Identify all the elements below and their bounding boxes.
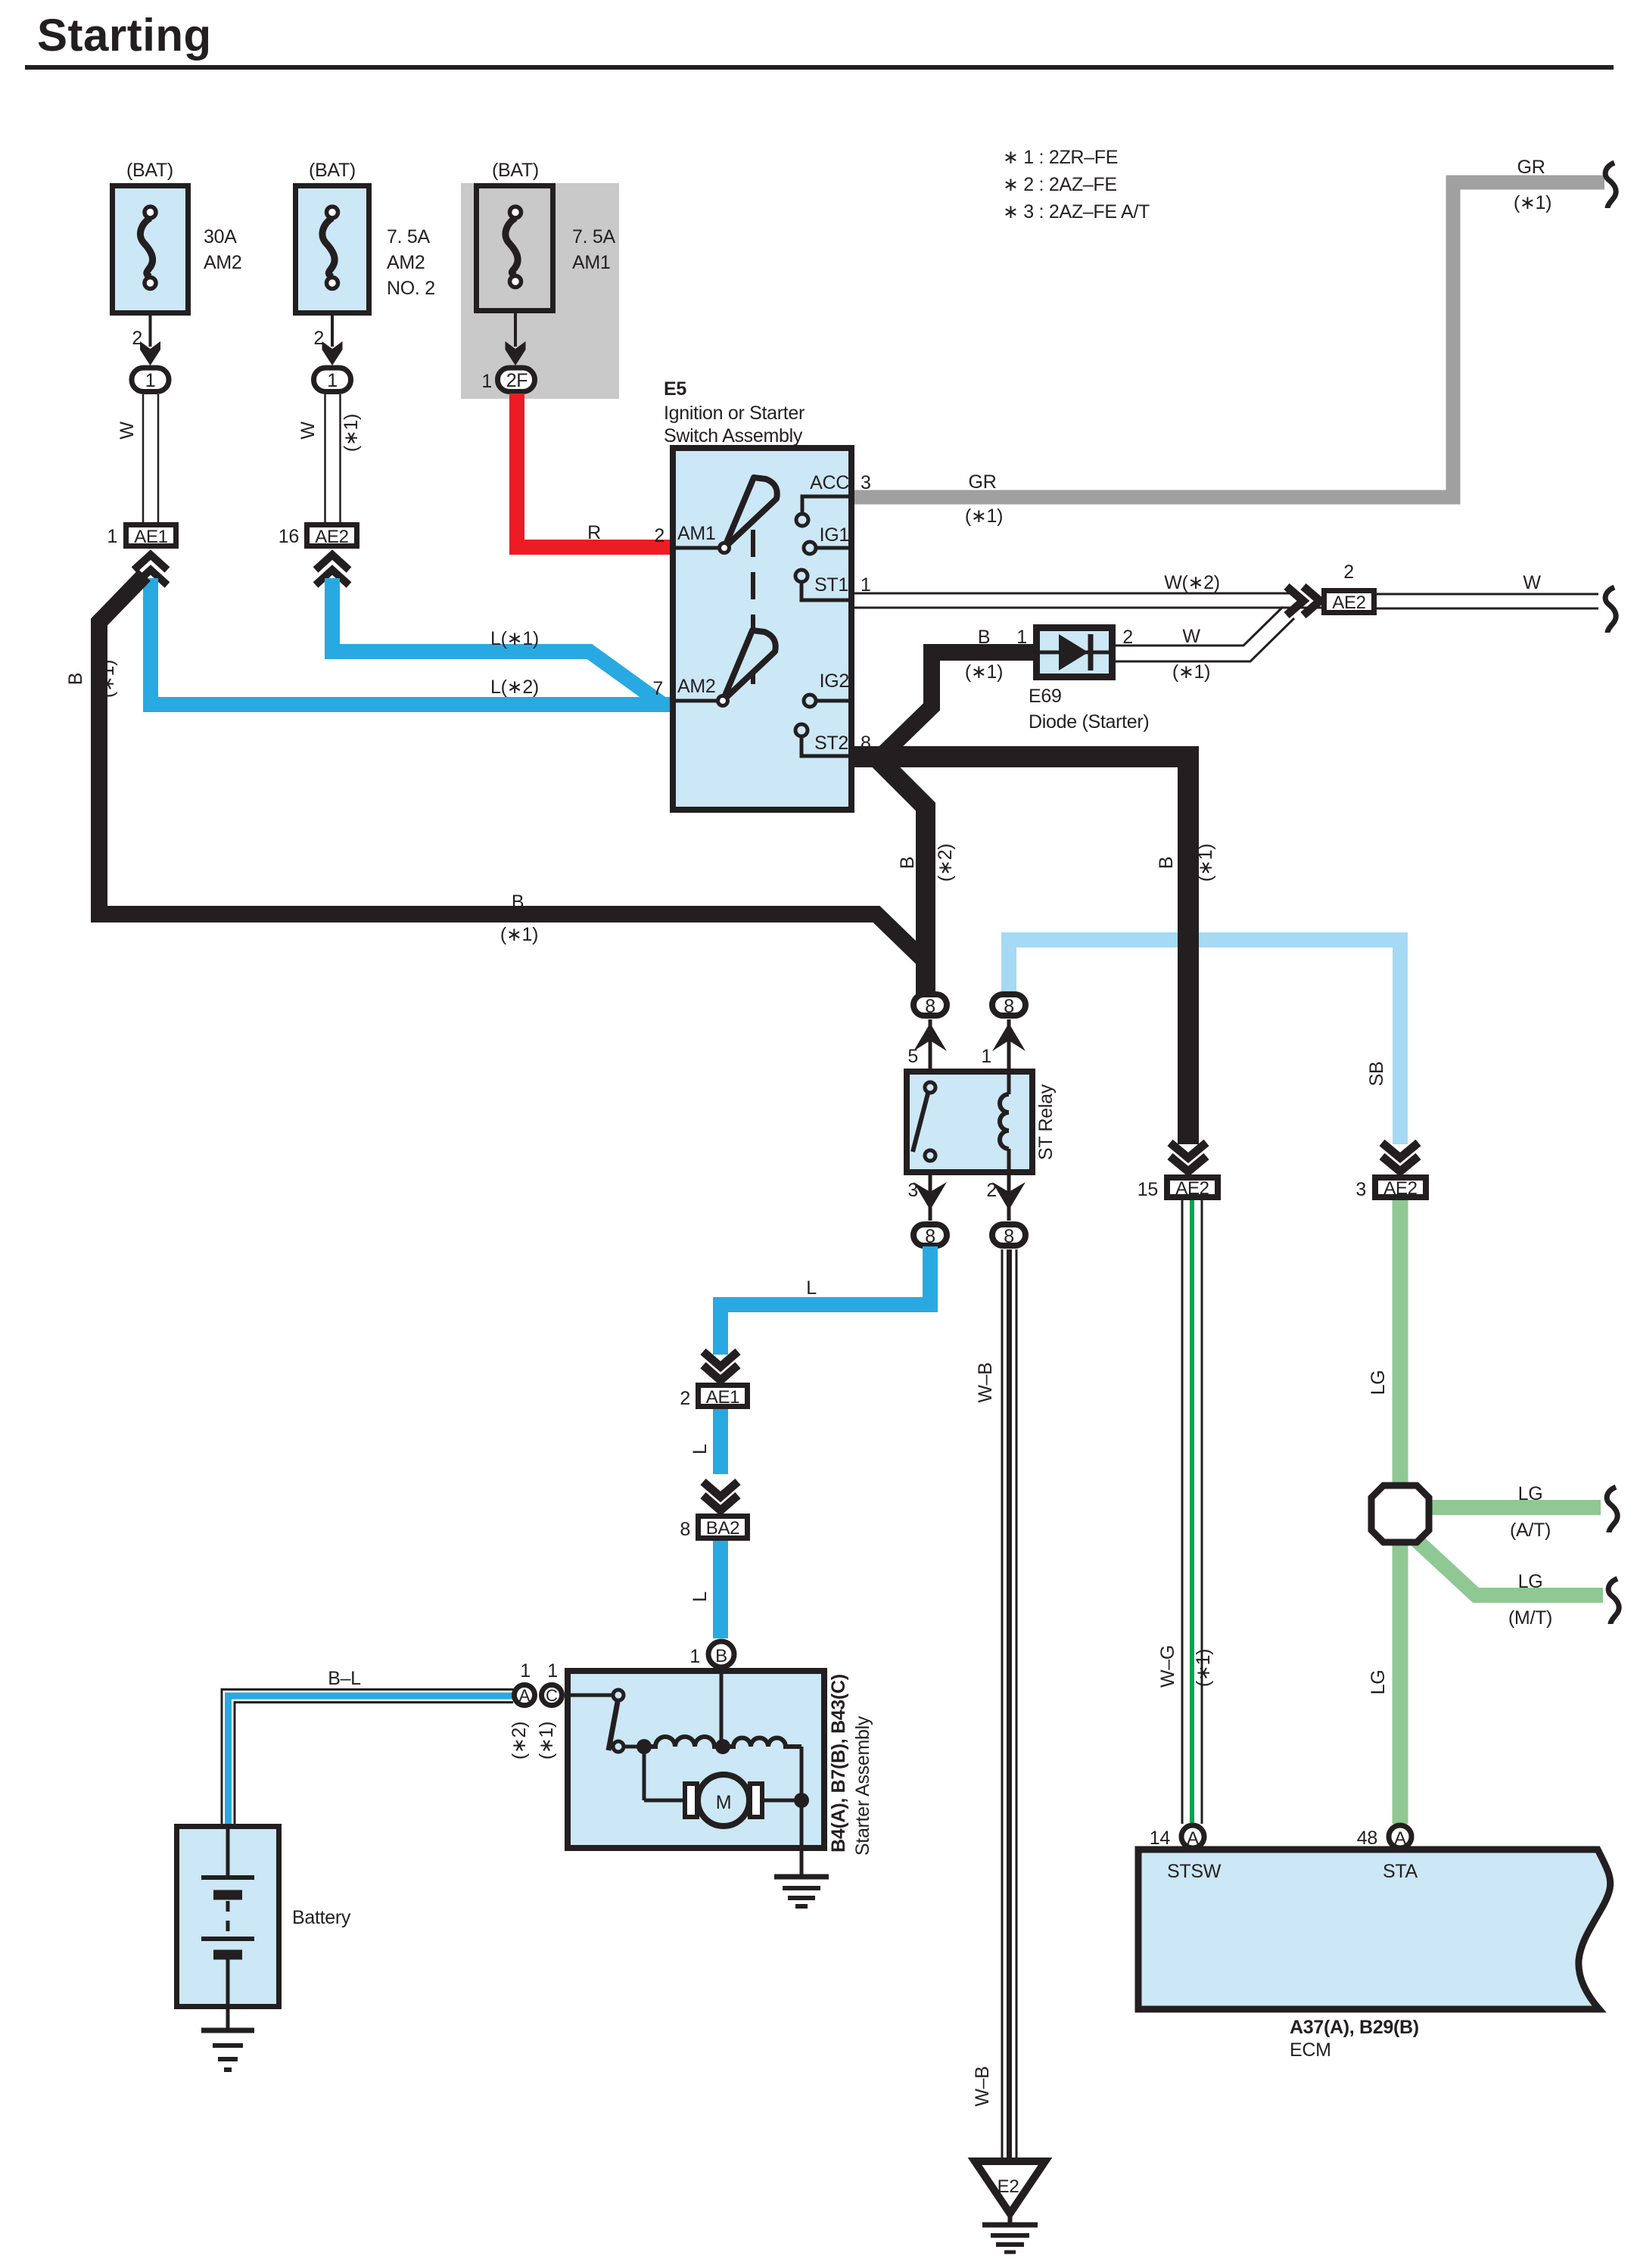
- svg-text:48: 48: [1357, 1828, 1377, 1849]
- squiggle end LG M/T: [1608, 1579, 1619, 1624]
- svg-text:1: 1: [145, 370, 156, 391]
- svg-text:(∗1): (∗1): [1195, 844, 1216, 882]
- svg-text:LG: LG: [1368, 1670, 1389, 1695]
- svg-text:ECM: ECM: [1290, 2039, 1331, 2061]
- wire L(*1) blue AE2 to AM2: [332, 578, 663, 705]
- connector oval 8 (relay pin2 bottom): [992, 1224, 1026, 1247]
- note text engine codes: [1003, 147, 1150, 222]
- connector AE2 pin16 (top): [279, 525, 357, 548]
- svg-text:1: 1: [547, 1660, 558, 1682]
- fuse AM2 NO.2 7.5A: [296, 160, 435, 313]
- AM1 rotor wedge: [720, 478, 777, 553]
- svg-text:Switch Assembly: Switch Assembly: [664, 425, 803, 446]
- svg-text:W–B: W–B: [975, 1362, 996, 1402]
- squiggle end GR: [1605, 163, 1616, 208]
- svg-text:(A/T): (A/T): [1510, 1520, 1551, 1541]
- svg-text:7: 7: [652, 678, 663, 699]
- title underline: [25, 65, 1614, 70]
- svg-text:∗ 3 : 2AZ–FE A/T: ∗ 3 : 2AZ–FE A/T: [1003, 201, 1150, 222]
- wire R fuse3 to AM1: [517, 394, 670, 547]
- svg-text:NO. 2: NO. 2: [387, 278, 435, 299]
- svg-text:E2: E2: [998, 2176, 1019, 2197]
- svg-text:AE1: AE1: [706, 1387, 739, 1408]
- arrow chevrons up into AE1: [134, 555, 167, 585]
- svg-text:15: 15: [1138, 1179, 1158, 1200]
- svg-text:B: B: [512, 891, 524, 913]
- relay pin2 lead and arrow: [986, 1175, 1026, 1221]
- svg-text:(∗1): (∗1): [1514, 192, 1552, 213]
- svg-text:1: 1: [520, 1660, 531, 1682]
- svg-text:W: W: [1523, 572, 1541, 593]
- svg-text:W: W: [1182, 626, 1200, 647]
- svg-text:2: 2: [680, 1388, 690, 1409]
- switch pin AM1: [654, 523, 719, 548]
- svg-text:(∗1): (∗1): [97, 660, 118, 698]
- svg-text:(∗2): (∗2): [509, 1722, 530, 1759]
- battery box: [177, 1827, 351, 2007]
- gray background block (AM1 fuse region): [461, 183, 619, 399]
- svg-text:2F: 2F: [506, 370, 528, 391]
- svg-text:L: L: [689, 1444, 711, 1454]
- svg-text:2: 2: [1343, 562, 1354, 583]
- svg-text:B: B: [1156, 857, 1177, 869]
- svg-text:2: 2: [986, 1180, 997, 1201]
- starter pull-in coil: [644, 1737, 724, 1747]
- svg-text:(∗1): (∗1): [965, 661, 1003, 683]
- relay coil: [1000, 1069, 1009, 1175]
- switch contact IG2: [804, 670, 854, 707]
- svg-text:E5: E5: [664, 378, 686, 400]
- arrow chevrons up into AE2: [316, 555, 349, 585]
- svg-text:A: A: [1394, 1828, 1406, 1849]
- wire LG from AE2 pin3 to octagon: [1368, 1200, 1400, 1488]
- svg-text:M: M: [716, 1792, 732, 1813]
- svg-text:L(∗2): L(∗2): [490, 677, 539, 698]
- svg-text:7. 5A: 7. 5A: [387, 226, 430, 247]
- svg-text:8: 8: [925, 1226, 935, 1247]
- svg-text:(∗1): (∗1): [965, 506, 1003, 527]
- svg-text:B4(A), B7(B), B43(C): B4(A), B7(B), B43(C): [828, 1674, 849, 1853]
- wire GR from ACC to top right: [854, 157, 1604, 527]
- svg-text:W(∗2): W(∗2): [1164, 572, 1220, 593]
- svg-text:AM2: AM2: [677, 676, 716, 697]
- svg-text:1: 1: [689, 1646, 700, 1667]
- svg-text:(∗1): (∗1): [536, 1722, 557, 1759]
- connector AE2 pin2 (right): [1324, 562, 1374, 613]
- svg-text:AE2: AE2: [1383, 1178, 1417, 1199]
- svg-text:1: 1: [481, 371, 492, 392]
- fuse AM1 7.5A: [477, 160, 616, 311]
- connector BA2 pin8: [680, 1517, 747, 1541]
- connector oval 2F (fuse3): [498, 368, 535, 392]
- svg-text:7. 5A: 7. 5A: [572, 226, 615, 247]
- switch contact IG1: [804, 524, 854, 554]
- svg-text:8: 8: [1004, 1226, 1014, 1247]
- wire LG (M/T) branch: [1414, 1538, 1603, 1629]
- black wire B(*1) overlay crossing SB: [1178, 916, 1199, 1144]
- svg-text:(∗1): (∗1): [1172, 661, 1210, 683]
- svg-text:SB: SB: [1366, 1062, 1387, 1087]
- ground battery: [201, 2030, 254, 2070]
- svg-text:(∗1): (∗1): [500, 924, 538, 945]
- switch contact ST1: [795, 570, 854, 600]
- svg-text:C: C: [546, 1686, 558, 1705]
- svg-text:(BAT): (BAT): [309, 160, 356, 181]
- wire LG octagon to ECM STA: [1368, 1540, 1400, 1824]
- svg-text:∗ 1 : 2ZR–FE: ∗ 1 : 2ZR–FE: [1003, 147, 1118, 168]
- svg-text:L: L: [689, 1591, 711, 1602]
- connector oval 8 (relay pin5 top): [913, 994, 947, 1017]
- svg-text:AM1: AM1: [677, 523, 716, 544]
- arrow chevrons down into AE2 pin3: [1382, 1143, 1418, 1171]
- svg-text:ST1: ST1: [814, 574, 848, 596]
- wire W(*2) from ST1 to AE2: [854, 572, 1321, 608]
- ground starter: [774, 1877, 829, 1906]
- connector AE1 pin2: [680, 1386, 747, 1410]
- svg-text:W: W: [117, 422, 138, 440]
- svg-text:W–B: W–B: [972, 2066, 993, 2106]
- svg-text:LG: LG: [1368, 1370, 1389, 1395]
- svg-text:W–G: W–G: [1157, 1645, 1178, 1688]
- svg-text:16: 16: [279, 526, 299, 547]
- relay pin3 lead and arrow: [907, 1175, 947, 1221]
- svg-text:B: B: [715, 1646, 727, 1666]
- svg-text:3: 3: [907, 1180, 918, 1201]
- svg-text:1: 1: [1016, 627, 1027, 648]
- svg-text:Starting: Starting: [37, 10, 212, 61]
- starter solenoid junction dot left: [636, 1739, 652, 1754]
- wire fuse2 to connector 1: [313, 313, 342, 366]
- ignition switch E5 box: [673, 448, 851, 810]
- pin number 3 (ACC): [861, 472, 871, 493]
- ground point E2: [975, 2161, 1045, 2224]
- switch contact ACC: [796, 472, 854, 526]
- svg-text:ST2: ST2: [814, 733, 848, 754]
- wire fuse1 to connector 1: [132, 313, 160, 366]
- svg-text:GR: GR: [1517, 157, 1545, 178]
- svg-text:AE2: AE2: [1175, 1178, 1209, 1199]
- ECM box: [1138, 1850, 1611, 2061]
- svg-text:LG: LG: [1518, 1483, 1543, 1504]
- squiggle end W: [1605, 587, 1616, 633]
- starter B feed line and junction dot: [715, 1670, 730, 1754]
- svg-text:B–L: B–L: [328, 1668, 361, 1689]
- wire fuse3 to connector 2F: [481, 311, 525, 392]
- connector oval 1 (fuse2): [314, 368, 351, 392]
- svg-text:1: 1: [327, 370, 338, 391]
- svg-text:STA: STA: [1383, 1861, 1418, 1882]
- svg-text:AM2: AM2: [387, 252, 425, 273]
- ST relay box: [907, 1072, 1057, 1172]
- svg-text:ACC: ACC: [810, 472, 849, 493]
- splice octagon: [1371, 1486, 1429, 1542]
- svg-text:8: 8: [680, 1519, 690, 1540]
- switch contact ST2: [795, 724, 854, 756]
- svg-text:AE2: AE2: [315, 527, 348, 547]
- svg-text:A: A: [1187, 1828, 1199, 1849]
- arrow chevrons down into AE1 pin2: [703, 1352, 738, 1380]
- arrow chevrons down into AE2 pin15: [1170, 1143, 1206, 1171]
- ground E2 symbol: [982, 2225, 1038, 2252]
- wire B(*1) black AE1 down-left and bottom run: [65, 575, 926, 995]
- relay contact: [913, 1082, 935, 1161]
- svg-text:R: R: [587, 522, 601, 543]
- svg-text:Ignition or Starter: Ignition or Starter: [664, 403, 805, 424]
- connector circle C (starter): [536, 1660, 562, 1759]
- starter hold-in coil: [724, 1738, 801, 1747]
- svg-text:L(∗1): L(∗1): [490, 628, 539, 649]
- wire LG (A/T) branch: [1426, 1483, 1601, 1541]
- svg-text:B: B: [897, 857, 918, 869]
- svg-text:ST Relay: ST Relay: [1035, 1084, 1057, 1160]
- svg-text:Diode (Starter): Diode (Starter): [1029, 711, 1149, 733]
- svg-text:LG: LG: [1518, 1571, 1543, 1592]
- svg-text:GR: GR: [969, 471, 997, 493]
- arrow chevrons right into AE2 pin2: [1287, 586, 1320, 615]
- starter assembly box: [568, 1671, 873, 1856]
- svg-text:∗ 2 : 2AZ–FE: ∗ 2 : 2AZ–FE: [1003, 174, 1117, 195]
- wire B-L battery to starter A/C: [222, 1668, 513, 1824]
- wire W-B from relay pin2 to E2: [972, 1249, 1016, 2161]
- svg-text:Starter Assembly: Starter Assembly: [852, 1716, 873, 1856]
- dashed link between rotors: [751, 530, 755, 685]
- svg-text:BA2: BA2: [706, 1518, 739, 1538]
- wire W fuse1 to AE1: [117, 394, 158, 522]
- svg-text:A: A: [519, 1686, 531, 1705]
- svg-text:5: 5: [907, 1046, 918, 1067]
- wire L(*2) blue AE1 to AM2: [151, 578, 670, 705]
- svg-text:STSW: STSW: [1167, 1861, 1222, 1882]
- svg-text:Battery: Battery: [292, 1907, 351, 1928]
- ECM pin 14 STSW: [1150, 1825, 1222, 1882]
- wire L blue AE1 to BA2: [689, 1409, 721, 1474]
- svg-text:1: 1: [107, 526, 117, 547]
- E5 ignition switch label: [664, 378, 805, 446]
- svg-text:AM1: AM1: [572, 252, 611, 273]
- starter switch contact: [565, 1690, 643, 1752]
- svg-text:(M/T): (M/T): [1508, 1607, 1552, 1629]
- wire B(*2) branch down to ST relay: [876, 758, 956, 995]
- svg-text:8: 8: [1004, 996, 1014, 1017]
- svg-text:B: B: [978, 627, 990, 648]
- svg-text:E69: E69: [1029, 686, 1062, 707]
- svg-text:IG1: IG1: [820, 524, 849, 546]
- wire W (*1) fuse2 to AE2: [297, 394, 362, 522]
- svg-text:IG2: IG2: [820, 670, 849, 692]
- svg-text:AE2: AE2: [1332, 593, 1365, 613]
- connector AE2 pin3: [1355, 1178, 1426, 1200]
- svg-text:(∗1): (∗1): [1193, 1649, 1214, 1687]
- arrow chevrons down into BA2: [703, 1482, 738, 1510]
- pin number 8 (ST2): [861, 733, 871, 754]
- svg-text:A37(A), B29(B): A37(A), B29(B): [1290, 2017, 1419, 2038]
- title Starting: [37, 10, 212, 61]
- svg-text:AM2: AM2: [204, 252, 242, 273]
- svg-text:8: 8: [925, 996, 935, 1017]
- battery cells: [201, 1824, 254, 2030]
- connector AE1 pin1 (top left): [107, 525, 176, 548]
- svg-text:W: W: [297, 422, 319, 440]
- squiggle end LG A/T: [1607, 1487, 1617, 1532]
- starter right side wire and junction dot: [794, 1747, 809, 1876]
- svg-text:14: 14: [1150, 1828, 1171, 1849]
- svg-text:2: 2: [654, 525, 664, 546]
- svg-text:1: 1: [981, 1046, 991, 1067]
- connector circle B (starter pin1): [689, 1641, 734, 1667]
- wire SB light blue from relay pin1 to AE2 pin3: [1009, 940, 1400, 1144]
- fuse AM2 30A: [113, 160, 242, 313]
- svg-text:30A: 30A: [204, 226, 237, 247]
- diode E69: [1029, 627, 1149, 733]
- wire L blue from relay pin3 down to AE1 pin2: [721, 1246, 930, 1355]
- wire W-G from AE2 pin15 to ECM STSW: [1157, 1200, 1214, 1824]
- wire L blue BA2 to starter B: [689, 1541, 721, 1638]
- relay pin5 lead and arrow: [907, 1019, 947, 1069]
- svg-text:(BAT): (BAT): [126, 160, 173, 181]
- connector oval 8 (relay pin3 bottom): [913, 1224, 947, 1247]
- wire W(*1) diode to AE2: [1116, 607, 1294, 683]
- wire B(*2) and B(*1) from ST2: [854, 757, 1216, 1144]
- connector circle A (starter): [509, 1660, 535, 1759]
- pin number 1 (ST1): [861, 574, 871, 596]
- svg-text:AE1: AE1: [134, 527, 167, 547]
- connector oval 1 (fuse1): [132, 368, 169, 392]
- svg-text:B: B: [65, 673, 86, 685]
- ECM pin 48 STA: [1357, 1825, 1418, 1882]
- svg-text:(∗2): (∗2): [935, 844, 956, 882]
- AM2 rotor wedge: [718, 630, 776, 706]
- starter motor M: [644, 1747, 801, 1826]
- svg-text:3: 3: [1355, 1179, 1366, 1200]
- svg-text:(∗1): (∗1): [341, 414, 362, 452]
- connector oval 8 (relay pin1 top): [992, 994, 1026, 1017]
- diode E69 feed wire B(*1) from ST2: [878, 627, 1033, 759]
- svg-text:L: L: [806, 1277, 817, 1299]
- relay pin1 lead and arrow: [981, 1019, 1026, 1069]
- wire W after AE2 to squiggle: [1377, 572, 1598, 608]
- switch pin AM2: [652, 676, 717, 701]
- connector AE2 pin15: [1138, 1178, 1218, 1200]
- svg-text:(BAT): (BAT): [492, 160, 539, 181]
